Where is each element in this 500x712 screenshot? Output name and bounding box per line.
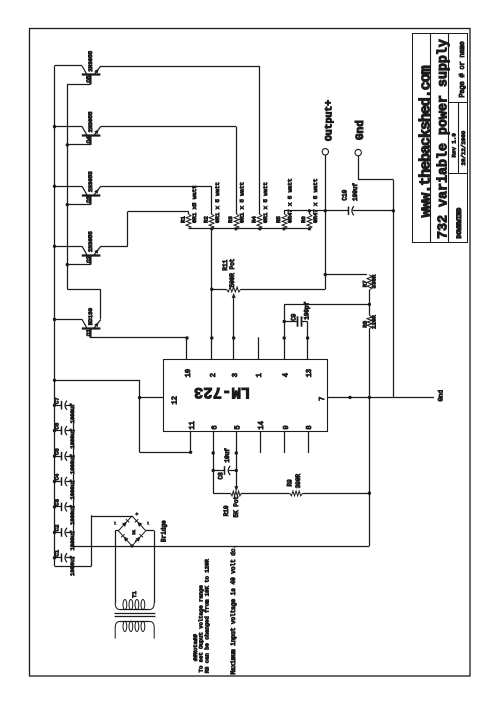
wire: output net down to R7 and R11 xyxy=(241,211,367,290)
svg-text:100pf: 100pf xyxy=(303,301,310,319)
title text www.thebackshed.com xyxy=(417,65,434,217)
svg-text:C10: C10 xyxy=(342,189,349,200)
capacitor C2 1000uf filter xyxy=(54,525,77,551)
svg-text:-: - xyxy=(134,540,139,543)
capacitor C3 1000uf filter xyxy=(54,499,77,525)
junction dots capacitor negative bus xyxy=(72,429,75,559)
wire: Q5 emitter to R4 xyxy=(100,66,259,214)
svg-text:0R1 x 5 watt: 0R1 x 5 watt xyxy=(214,182,221,223)
transformer T1 xyxy=(115,590,156,638)
U1 pin numbers bottom edge (11 6 5 14 9 8) xyxy=(189,421,314,429)
svg-text:11: 11 xyxy=(189,421,197,429)
wire: capacitor negative bus xyxy=(73,405,75,546)
transistor Q3 2N3055 xyxy=(82,171,101,205)
svg-text:R3: R3 xyxy=(227,216,234,223)
junction dot bridge negative on ground rail xyxy=(130,544,133,547)
note text block xyxy=(192,559,211,674)
junction dot C9 left at pin4 net xyxy=(283,320,286,323)
title cell Rev 1.0 xyxy=(451,133,458,158)
junction dots on V+ rail xyxy=(53,125,193,560)
resistor R3 0R1 x 5 watt xyxy=(227,182,246,229)
svg-text:C8: C8 xyxy=(218,472,225,480)
net label Gnd at pin 7 xyxy=(438,390,445,402)
svg-text:Q3: Q3 xyxy=(85,195,92,202)
svg-text:R4: R4 xyxy=(251,216,258,223)
svg-text:R1: R1 xyxy=(180,216,187,223)
svg-text:10: 10 xyxy=(185,369,193,377)
svg-text:13: 13 xyxy=(306,369,314,377)
junction dot output sense xyxy=(324,273,327,276)
svg-text:C9: C9 xyxy=(290,313,297,321)
capacitor C4 1000uf filter xyxy=(54,473,77,500)
resistor R4 0R1 x 5 watt xyxy=(251,182,270,229)
capacitor C8 10uf xyxy=(213,448,236,480)
svg-text:C3: C3 xyxy=(54,499,61,506)
svg-text:R10: R10 xyxy=(223,505,230,516)
note text maximum input voltage xyxy=(230,545,237,675)
svg-text:R11: R11 xyxy=(222,259,229,270)
capacitor C9 100pf compensation xyxy=(284,301,310,359)
wire: R7/R8 junction to U1 pin 4 and C9 xyxy=(284,304,369,359)
svg-text:C7: C7 xyxy=(54,397,61,404)
svg-text:R5: R5 xyxy=(275,216,282,223)
transistor Q2 2N3055 xyxy=(82,231,101,265)
svg-text:R8: R8 xyxy=(362,320,369,327)
wire: Q1 base to U1 pin 10 xyxy=(91,337,187,360)
junction dots output bus xyxy=(308,209,395,212)
svg-text:LM-723: LM-723 xyxy=(194,383,250,401)
svg-text:14: 14 xyxy=(258,421,266,429)
terminal Gnd xyxy=(355,120,367,156)
bridge rectifier xyxy=(114,512,152,546)
U1 pin numbers top edge (10 2 3 1 4 13) xyxy=(185,369,314,377)
wire: Q4 emitter to R3 xyxy=(100,127,236,215)
svg-text:1000uf: 1000uf xyxy=(69,531,76,551)
svg-text:www.thebackshed.com: www.thebackshed.com xyxy=(417,65,434,217)
svg-text:Q1: Q1 xyxy=(85,329,92,336)
svg-text:0R1 x 5 watt: 0R1 x 5 watt xyxy=(238,182,245,223)
svg-text:C4: C4 xyxy=(54,473,61,480)
potentiometer R10 5K Pot voltage adjust xyxy=(223,432,241,518)
wire: Q2 emitter to R1 xyxy=(100,212,188,247)
svg-text:1000uf: 1000uf xyxy=(69,454,76,474)
svg-text:390R: 390R xyxy=(295,473,302,488)
junction dot R11 left on pin2 net xyxy=(210,288,213,291)
U1 pin number 12 left edge xyxy=(172,396,180,404)
svg-text:R2: R2 xyxy=(203,216,210,223)
capacitor C1 1000uf filter xyxy=(54,549,77,576)
resistor R5 0R47 x 5 watt xyxy=(275,179,294,229)
svg-text:Q2: Q2 xyxy=(85,255,92,262)
svg-text:Page # or name: Page # or name xyxy=(459,41,467,97)
svg-text:0R47 x 5 watt: 0R47 x 5 watt xyxy=(312,179,319,223)
bridge label xyxy=(161,520,168,542)
svg-text:2N3055: 2N3055 xyxy=(87,171,94,192)
svg-text:C1: C1 xyxy=(54,549,61,556)
transistor Q1 BD139 driver xyxy=(82,307,101,337)
potentiometer R11 500R Pot xyxy=(212,259,241,360)
svg-text:2N3055: 2N3055 xyxy=(87,50,94,71)
svg-text:Q4: Q4 xyxy=(85,136,92,143)
svg-text:2N3055: 2N3055 xyxy=(87,111,94,132)
svg-text:120R: 120R xyxy=(370,315,377,329)
title block xyxy=(413,33,468,243)
svg-text:7: 7 xyxy=(319,397,327,401)
svg-text:+: + xyxy=(136,512,141,515)
wire: output bus to Output+ post and C10 xyxy=(284,210,393,212)
capacitor C10 100uf output xyxy=(342,183,359,216)
svg-text:0R1 x5 watt: 0R1 x5 watt xyxy=(191,185,198,223)
svg-text:Gnd: Gnd xyxy=(438,390,445,402)
svg-text:3: 3 xyxy=(232,373,240,377)
svg-text:5K Pot: 5K Pot xyxy=(233,496,240,518)
svg-text:100uf: 100uf xyxy=(352,183,359,201)
junction dots on emitter-resistor bus xyxy=(210,227,311,230)
transistor Q5 2N3055 xyxy=(82,50,101,84)
resistor R2 0R1 x 5 watt xyxy=(203,182,222,229)
svg-text:0R47 x 5 watt: 0R47 x 5 watt xyxy=(286,179,293,223)
svg-text:C2: C2 xyxy=(54,525,61,532)
svg-text:Bridge: Bridge xyxy=(161,520,168,542)
transistor Q4 2N3055 xyxy=(82,111,101,145)
svg-text:Q5: Q5 xyxy=(85,75,92,82)
svg-text:5: 5 xyxy=(235,425,243,429)
svg-text:R7: R7 xyxy=(362,280,369,287)
svg-text:1000uf: 1000uf xyxy=(69,480,76,500)
wire: bridge AC left to transformer secondary xyxy=(115,531,118,604)
svg-text:Gnd: Gnd xyxy=(355,120,367,140)
junction dot R7/R8 xyxy=(368,303,371,306)
svg-text:1000uf: 1000uf xyxy=(69,505,76,525)
svg-text:T1: T1 xyxy=(131,590,138,597)
wire: R5 R6 top leads to output bus xyxy=(285,211,310,214)
svg-text:1000uf: 1000uf xyxy=(69,556,76,576)
resistor R1 0R1 x5 watt xyxy=(180,185,199,228)
U1 pin number 7 right edge xyxy=(319,397,327,401)
title text 732 variable power supply xyxy=(437,39,452,239)
junction dots C8 leads xyxy=(212,469,239,472)
title cell date 20/12/2009 xyxy=(460,130,467,165)
resistor R7 330R xyxy=(362,274,378,304)
svg-text:8: 8 xyxy=(306,425,314,429)
svg-text:1000uf: 1000uf xyxy=(69,403,76,423)
svg-text:Output+: Output+ xyxy=(323,100,334,141)
svg-text:DOWNWIND: DOWNWIND xyxy=(456,208,463,239)
svg-text:R9: R9 xyxy=(286,479,293,487)
junction dots ground net xyxy=(348,396,371,495)
svg-text:12: 12 xyxy=(172,396,180,404)
svg-text:6: 6 xyxy=(211,425,219,429)
capacitor C6 1000uf filter xyxy=(54,423,77,449)
resistor R8 120R xyxy=(362,304,378,329)
svg-text:2: 2 xyxy=(210,373,218,377)
wire: U1 pin 7 to Gnd label xyxy=(327,397,434,399)
capacitor C7 1000uf filter xyxy=(54,397,77,423)
svg-text:0R1 x 5 watt: 0R1 x 5 watt xyxy=(262,182,269,223)
capacitor C5 1000uf filter xyxy=(54,448,77,474)
svg-text:R8 can be changed from 10K to: R8 can be changed from 10K to 120R xyxy=(203,559,210,674)
svg-text:R6: R6 xyxy=(300,216,307,223)
svg-text:2N3055: 2N3055 xyxy=(87,231,94,252)
svg-text:C5: C5 xyxy=(54,448,61,455)
U1 unconnected pin stubs (1,14,9,8) xyxy=(259,337,309,453)
U1 pin stub junction dots xyxy=(185,336,309,454)
resistor R9 390R xyxy=(286,473,302,495)
svg-text:C6: C6 xyxy=(54,423,61,430)
wire net: ground vertical (R8, pin7, R9, rail) xyxy=(369,329,371,546)
svg-text:9: 9 xyxy=(283,425,291,429)
wire: U1 pin 6 to R10 xyxy=(213,432,231,494)
wire: Q3 emitter to R2 xyxy=(100,186,211,214)
resistor R6 0R47 x 5 watt xyxy=(300,179,319,229)
title cell DOWNWIND xyxy=(456,208,463,239)
wire: bus to U1 pin 2 (through R11 junction) xyxy=(211,229,213,360)
svg-text:D1: D1 xyxy=(133,529,137,534)
svg-text:1: 1 xyxy=(256,373,264,377)
wire net: base drive rail from Q1 emitter to Q2..Q5 bases xyxy=(67,84,100,319)
wire: Gnd post to C10 negative and pin 7 rail xyxy=(358,156,393,398)
svg-text:732 variable power supply: 732 variable power supply xyxy=(437,39,452,239)
wire: emitter-resistor common bus xyxy=(189,228,310,230)
svg-text:330R: 330R xyxy=(370,274,377,288)
wire net: unregulated V+ rail (collectors, caps, bridge +, pins 11/12) xyxy=(55,66,191,567)
svg-text:500R Pot: 500R Pot xyxy=(229,259,236,288)
op-amp regulator U1 LM-723 body xyxy=(164,360,328,432)
svg-text:1000uf: 1000uf xyxy=(69,429,76,449)
wire: R9 to ground vertical xyxy=(302,493,369,495)
svg-text:4: 4 xyxy=(282,373,290,377)
title cell Page # or name xyxy=(459,41,467,97)
junction dots on base rail xyxy=(66,143,69,266)
wire: bottom ground rail xyxy=(74,546,370,548)
terminal Output+ xyxy=(322,100,334,211)
svg-text:BD139: BD139 xyxy=(87,307,94,325)
svg-text:Rev 1.0: Rev 1.0 xyxy=(451,133,458,158)
svg-text:~: ~ xyxy=(114,522,119,525)
svg-text:20/12/2009: 20/12/2009 xyxy=(460,130,467,165)
wire: R10 to R9 xyxy=(241,493,290,495)
svg-text:Maximum input voltage is 40 vo: Maximum input voltage is 40 volt dc. xyxy=(230,545,237,675)
svg-text:~: ~ xyxy=(147,522,152,525)
svg-text:10uf: 10uf xyxy=(224,448,231,463)
wire: bridge AC right to transformer secondary xyxy=(146,531,155,604)
